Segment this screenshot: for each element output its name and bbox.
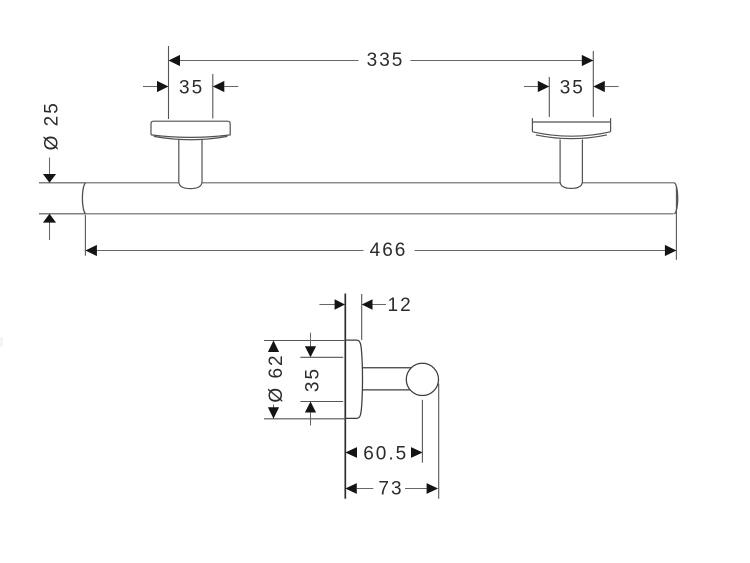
dim 35 side: top arrow [305, 346, 316, 357]
dim 12: left tail [319, 304, 334, 306]
dim 35 left: right tail [224, 86, 238, 88]
dim 60.5: center extension line [421, 400, 423, 463]
dim 466: line [85, 250, 676, 252]
dim 466: right arrow [665, 245, 677, 256]
dim 335 extension line right [592, 51, 594, 117]
dim 35 side: dim line [310, 333, 312, 426]
svg-text:73: 73 [378, 478, 403, 499]
dim 466: right extension line [675, 186, 677, 260]
svg-text:35: 35 [302, 367, 323, 392]
right stud [560, 140, 582, 189]
dim 35 side: bottom arrow [305, 402, 316, 413]
svg-text:466: 466 [370, 240, 408, 261]
svg-text:Ø 62: Ø 62 [266, 353, 287, 402]
dim 73: right arrow [427, 483, 439, 494]
dim Ø62: top extension line [264, 340, 345, 342]
bar top edge [85, 182, 674, 184]
dim 335 extension line left [168, 46, 170, 119]
dim Ø25: dim line [49, 158, 51, 241]
edge artifact [0, 337, 3, 347]
svg-text:335: 335 [367, 50, 405, 71]
dim 35 left: left tail [143, 86, 157, 88]
dim 60.5: left arrow [345, 447, 357, 458]
bar left end cap [82, 183, 85, 214]
dim 35 right: right tail [605, 86, 619, 88]
dim Ø25: top extension line [39, 182, 85, 184]
dim 35 left: right arrow [213, 81, 225, 92]
dim 35 right: left arrow [538, 81, 550, 92]
left stud [179, 140, 202, 189]
dim 35 side: bottom extension line [300, 401, 343, 403]
dim 73: left tail [357, 488, 374, 490]
bar right end cap [674, 183, 677, 214]
svg-text:35: 35 [560, 77, 585, 98]
dim 35 left: left arrow [157, 81, 169, 92]
dim 335 line [169, 60, 594, 62]
right flange [532, 118, 610, 138]
svg-text:Ø 25: Ø 25 [41, 101, 62, 150]
mount stem bottom edge [362, 389, 412, 391]
dim 466: left arrow [85, 245, 97, 256]
dim 73: left arrow [345, 483, 357, 494]
dim 12: right arrow [362, 299, 373, 310]
dim 35 side: top extension line [300, 356, 343, 358]
bar bottom edge [85, 213, 673, 215]
dim 335 arrow left [169, 55, 181, 66]
mount flange side profile [346, 340, 363, 418]
dim Ø25: bottom extension line [39, 213, 85, 215]
dim Ø62: bottom arrow [268, 407, 279, 419]
bar cross-section ball [406, 363, 438, 395]
dim 35 right: extension line [548, 77, 550, 117]
dim Ø62: top arrow [268, 341, 279, 353]
dim 35 right: right arrow [593, 81, 605, 92]
dim 35 right: left tail [524, 86, 538, 88]
dim 73: right extension line [438, 384, 440, 499]
dim Ø25: top arrow [43, 174, 56, 183]
dim 12: right tail [373, 304, 387, 306]
dim 335 arrow right [582, 55, 594, 66]
dim Ø62: dim line [273, 341, 275, 419]
dim 73: right tail [405, 488, 427, 490]
dim 466: left extension line [84, 215, 86, 256]
svg-text:60.5: 60.5 [363, 444, 408, 465]
dim 12: right extension line [361, 294, 363, 340]
dim Ø25: bottom arrow [43, 214, 56, 223]
svg-text:35: 35 [179, 77, 204, 98]
svg-text:12: 12 [388, 295, 413, 316]
wall line [344, 294, 346, 499]
dim 12: left arrow [335, 299, 345, 310]
mount stem top edge [362, 367, 411, 369]
left flange [151, 121, 230, 140]
dim 60.5: right arrow [411, 447, 423, 458]
dim Ø62: bottom extension line [264, 418, 345, 420]
dim 35 left: extension line [212, 74, 214, 119]
